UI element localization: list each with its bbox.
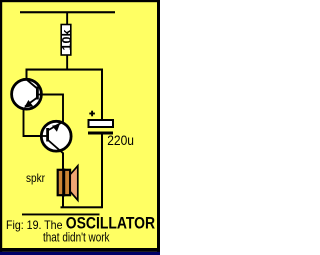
capacitor C1 plus sign [89, 111, 95, 117]
caption separator line [22, 214, 100, 216]
top supply rail wire [20, 11, 115, 13]
frame border left [0, 0, 2, 252]
navy bottom strip [0, 252, 160, 255]
speaker wire through coil [62, 169, 65, 197]
capacitor C1 negative plate [88, 132, 113, 135]
speaker coil body [58, 170, 70, 195]
svg-text:10k: 10k [60, 30, 74, 51]
yellow background [0, 0, 160, 255]
frame border bottom [0, 248, 160, 252]
wire resistor bottom lead [66, 55, 68, 70]
frame border top [0, 0, 160, 2]
wire Q1 base to Q2 emitter (node A) [42, 95, 63, 123]
resistor R1 10k body [61, 25, 71, 56]
speaker cone [70, 166, 78, 200]
wire capacitor bottom lead [101, 135, 103, 209]
wire resistor top lead [66, 12, 68, 25]
svg-text:spkr: spkr [26, 171, 45, 185]
wire Q2 collector down to speaker [62, 153, 64, 170]
wire Q1 collector lead [26, 70, 28, 81]
mid horizontal rail wire [26, 69, 104, 71]
capacitor C1 positive plate [89, 120, 114, 127]
transistor Q2 (base left) [41, 121, 71, 153]
wire capacitor top lead [101, 70, 103, 121]
svg-text:that didn't work: that didn't work [43, 230, 110, 245]
transistor Q1 (PNP, base right) [12, 79, 44, 109]
frame border right [157, 0, 160, 252]
bottom rail wire [61, 206, 103, 208]
svg-text:220u: 220u [107, 132, 134, 148]
wire speaker bottom lead [62, 196, 64, 208]
wire Q1 emitter down and right to Q2 base [24, 108, 42, 137]
